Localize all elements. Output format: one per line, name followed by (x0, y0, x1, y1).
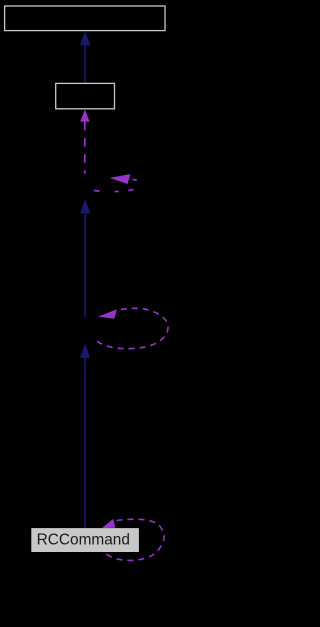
arrowhead of node1 self-loop (pointing left) (110, 174, 131, 184)
arrowhead of RCCommand self-loop (pointing left-down, over box) (102, 519, 116, 528)
wire: dashed usage edge node1 to second box (purple) (84, 121, 86, 130)
wire: solid inheritance edge RCCommand to node2 (84, 358, 86, 528)
wire: solid inheritance edge node2 to node1 (84, 213, 86, 316)
self-loop on node2 (dashed purple) (97, 308, 168, 348)
wire dash of node1 self-loop (115, 191, 119, 193)
wire: solid inheritance edge second box to top box (84, 45, 86, 84)
wire dash of node1 self-loop (133, 179, 137, 180)
node RCCommand (filled gray box) (31, 528, 139, 552)
svg-text:RCCommand: RCCommand (37, 532, 130, 549)
arrowhead (darkorchid, pointing up) (80, 109, 89, 121)
arrowhead (midnightblue, pointing up) (80, 31, 90, 45)
arrowhead (midnightblue, pointing up) (80, 199, 90, 214)
self-loop on node1 (dashed purple) (94, 189, 100, 192)
wire dash of node1 self-loop (128, 189, 133, 191)
node box (top base class, label invisible) (5, 6, 165, 31)
arrowhead (midnightblue, pointing up) (80, 344, 90, 358)
arrowhead of node2 self-loop (pointing left) (98, 309, 117, 318)
self-loop on RCCommand (dashed purple) (107, 519, 165, 560)
node box (second base class, label invisible) (56, 83, 115, 108)
